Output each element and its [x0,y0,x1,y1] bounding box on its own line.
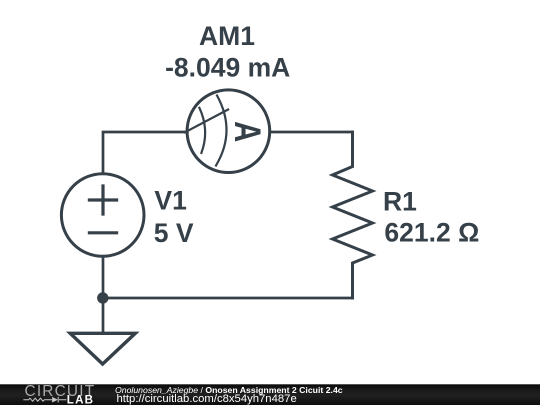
CircuitLab logo diode triangle [52,397,58,403]
V1 plus sign [89,186,116,214]
ammeter AM1 gauge arc large [216,96,227,166]
svg-text:A: A [226,121,267,142]
CircuitLab logo wire glyph with resistor and diode [23,397,66,403]
svg-text:LAB: LAB [67,394,94,405]
voltage source V1 circle [61,174,144,257]
svg-text:-8.049 mA: -8.049 mA [165,52,290,82]
wire V1 bottom lead to node A [102,257,105,299]
wire top-left (V1 top to ammeter left) [103,132,187,174]
svg-text:5 V: 5 V [154,218,194,248]
resistor R1 zigzag [333,132,373,298]
wire top-right (ammeter right to resistor top) [270,131,353,134]
node A junction dot [97,292,108,303]
svg-text:http://circuitlab.com/c8x54yh7: http://circuitlab.com/c8x54yh7n487e [117,393,297,405]
wire bottom (node A to resistor bottom) [103,297,353,300]
ammeter AM1 gauge arc small [199,108,205,153]
svg-text:V1: V1 [154,186,186,216]
ammeter AM1 circle [187,90,270,173]
V1 minus sign [89,231,116,234]
svg-text:AM1: AM1 [199,21,255,51]
ammeter AM1 needle [185,110,228,133]
svg-text:621.2 Ω: 621.2 Ω [384,218,479,248]
wire node A to ground [102,298,105,332]
svg-text:R1: R1 [383,186,417,216]
ground [70,333,135,364]
